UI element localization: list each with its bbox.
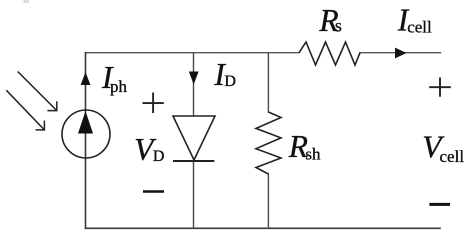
- svg-text:sh: sh: [305, 145, 321, 164]
- light arrow 1 head: [47, 101, 56, 110]
- current source internal arrow: [78, 111, 93, 134]
- minus sign V_D: [143, 190, 164, 193]
- svg-text:s: s: [335, 16, 342, 36]
- light arrow 2 head: [36, 121, 45, 130]
- wire shunt branch top: [267, 53, 269, 112]
- wire left branch: [85, 53, 87, 229]
- light arrow 2 shaft: [6, 90, 44, 130]
- arrowhead I_ph: [81, 72, 91, 85]
- current source I_ph circle: [62, 110, 110, 158]
- faint scan artifact top edge: [24, 0, 30, 3]
- diode cathode bar: [173, 160, 214, 162]
- resistor R_s zigzag: [299, 42, 360, 65]
- svg-text:D: D: [224, 73, 236, 90]
- wire shunt branch bottom: [267, 174, 269, 228]
- wire diode branch top: [193, 53, 195, 116]
- plus sign V_cell: [429, 78, 451, 97]
- wire bottom: [86, 227, 441, 229]
- arrowhead I_D: [189, 72, 199, 85]
- minus sign V_cell: [429, 203, 450, 206]
- light arrow 1 shaft: [18, 72, 57, 111]
- arrowhead I_cell: [395, 48, 407, 59]
- svg-text:cell: cell: [440, 147, 465, 166]
- svg-text:ph: ph: [110, 77, 128, 96]
- svg-text:cell: cell: [407, 18, 432, 37]
- plus sign V_D: [143, 93, 164, 114]
- wire top-right segment: [360, 52, 441, 54]
- svg-text:D: D: [153, 148, 165, 165]
- resistor R_sh zigzag: [256, 112, 281, 174]
- wire diode branch bottom: [193, 161, 195, 228]
- wire top-left segment: [86, 52, 300, 54]
- diode D body: [173, 116, 215, 160]
